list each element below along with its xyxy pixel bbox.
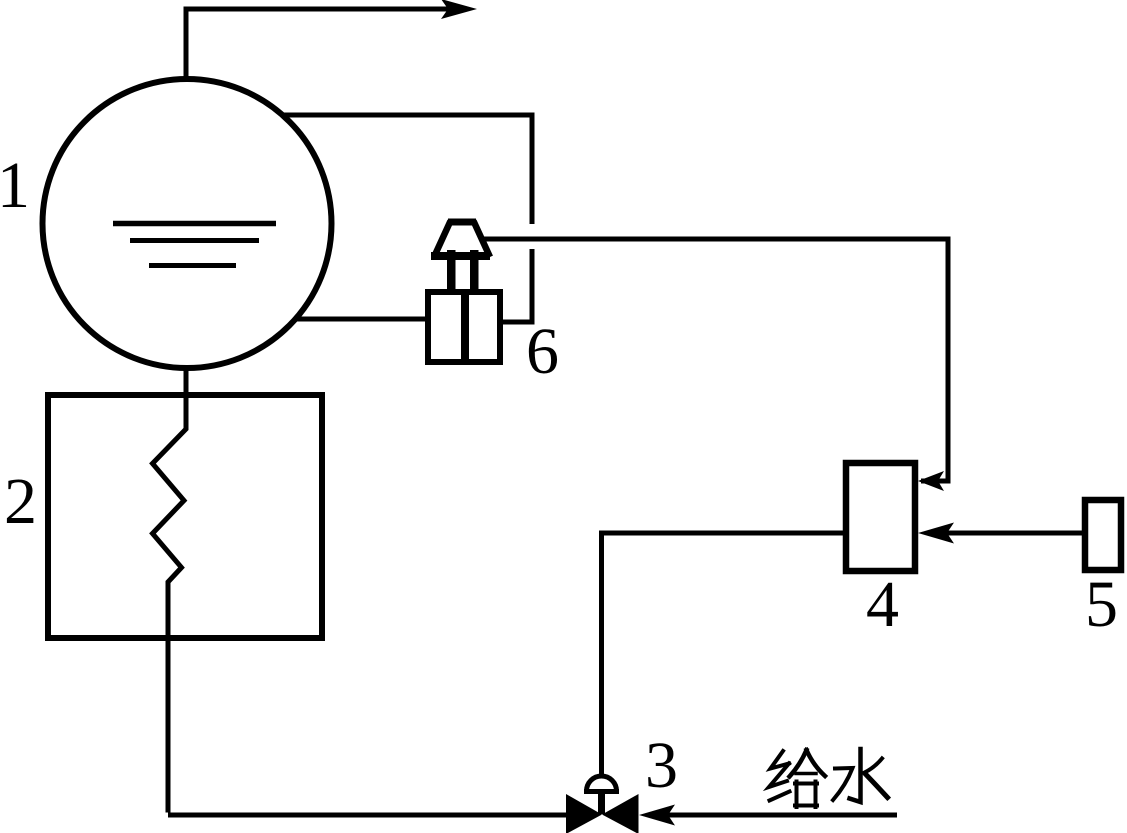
wire: setter 5 to controller 4 — [945, 531, 1082, 536]
transmitter 6 hood top bar — [448, 219, 476, 226]
valve 3 stem — [598, 794, 605, 814]
wire: controller 4 to valve 3 — [602, 533, 847, 777]
controller 4 box — [846, 463, 915, 571]
wire: drum right to transmitter 6 left side — [295, 317, 428, 322]
svg-text:6: 6 — [526, 315, 559, 388]
water level line top — [113, 221, 276, 227]
wire: feed water line left of valve — [168, 813, 567, 818]
transmitter 6 body — [428, 292, 500, 362]
svg-text:3: 3 — [645, 729, 678, 802]
valve 3 body right triangle — [602, 794, 639, 833]
arrowhead steam outlet — [441, 0, 477, 19]
feed water text 给 (drawn strokes) — [769, 750, 825, 807]
transmitter 6 hood right slant — [474, 221, 491, 257]
svg-text:2: 2 — [4, 465, 37, 538]
arrowhead into controller 4 top right — [918, 471, 944, 491]
wire: transmitter 6 hood to controller 4 — [484, 239, 948, 481]
svg-text:4: 4 — [866, 568, 899, 641]
transmitter 6 hood left slant — [434, 221, 451, 257]
arrowhead feed water into valve — [639, 805, 675, 826]
transmitter 6 hood bottom bar — [431, 252, 490, 260]
valve 3 actuator dome — [587, 776, 617, 791]
boiler drum 1 (circle) — [43, 79, 332, 368]
transmitter 6 body divider — [461, 291, 469, 363]
wire: steam outlet from drum top — [186, 9, 450, 78]
feed water text 水 (drawn strokes) — [833, 749, 888, 802]
wire: feed water line right segment — [668, 813, 897, 818]
setter 5 box — [1085, 500, 1121, 570]
transmitter 6 stem left bar — [447, 250, 456, 293]
valve 3 actuator base — [584, 789, 619, 794]
water level line bottom — [149, 263, 236, 268]
svg-text:1: 1 — [0, 149, 30, 222]
economizer 2 box — [48, 395, 322, 638]
transmitter 6 stem right bar — [470, 250, 479, 293]
svg-text:5: 5 — [1085, 568, 1118, 641]
water level line middle — [130, 238, 259, 243]
arrowhead into controller 4 right — [918, 523, 954, 544]
valve 3 body left triangle — [566, 794, 602, 833]
heater element wire: drum bottom through zigzag to feed line — [153, 368, 187, 813]
wire: drum upper right to node — [284, 115, 532, 224]
wire: node down to transmitter 6 right side (after crossover gap) — [500, 249, 532, 322]
